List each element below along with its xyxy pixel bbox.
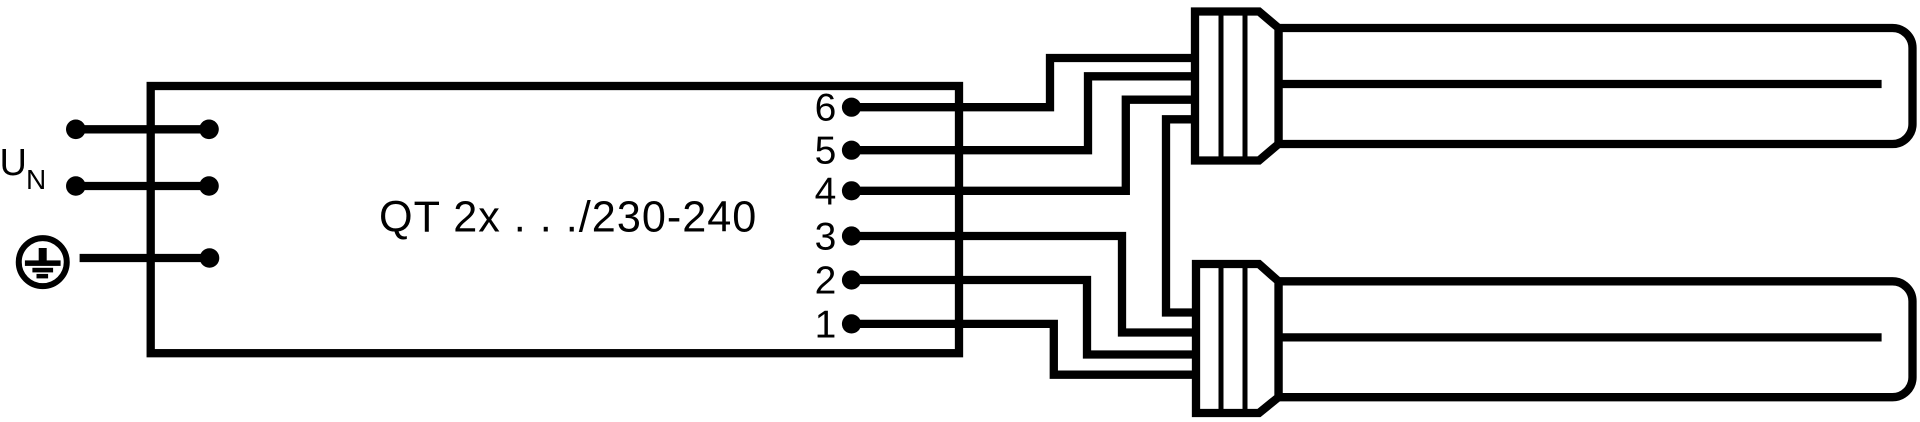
- lamp 2 tube middle line: [1279, 333, 1882, 341]
- node dot PE right: [200, 248, 220, 268]
- wire L2: [76, 182, 209, 190]
- ballast box QT 2x.../230-240: [151, 86, 959, 353]
- wire PE: [80, 254, 210, 262]
- node dot L1 right: [199, 120, 219, 140]
- svg-text:3: 3: [815, 216, 837, 259]
- lamp 1 tube: [1279, 28, 1913, 144]
- lamp 2 base: [1196, 264, 1279, 413]
- svg-text:4: 4: [815, 170, 837, 213]
- wire terminal 4 to lamp1 pin3: [852, 100, 1196, 191]
- wire terminal 2 to lamp2 pin3: [852, 280, 1197, 355]
- lamp 2 base divider 1: [1219, 264, 1224, 413]
- svg-text:5: 5: [815, 130, 837, 173]
- svg-text:QT 2x . . ./230-240: QT 2x . . ./230-240: [379, 194, 757, 242]
- lamp 1 base divider 1: [1219, 12, 1224, 161]
- node dot L2 right: [199, 176, 219, 196]
- lamp 2 base divider 2: [1243, 264, 1248, 413]
- lamp 2 tube: [1279, 281, 1913, 397]
- wire terminal 3 to lamp2 pin2: [852, 236, 1197, 333]
- wire series link lamp1 pin4 to lamp2 pin1: [1166, 119, 1196, 312]
- svg-text:U: U: [0, 142, 27, 184]
- wire terminal 1 to lamp2 pin4: [852, 324, 1197, 375]
- wire terminal 5 to lamp1 pin2: [852, 76, 1196, 150]
- svg-text:6: 6: [815, 87, 837, 130]
- ground symbol (protective earth): [19, 238, 67, 286]
- lamp 1 base divider 2: [1243, 12, 1248, 161]
- svg-text:N: N: [26, 164, 46, 195]
- node dot L1 left: [66, 120, 86, 140]
- node dot L2 left: [66, 176, 86, 196]
- lamp 1 tube middle line: [1279, 80, 1882, 88]
- wire terminal 6 to lamp1 pin1: [852, 58, 1196, 107]
- lamp 1 base: [1195, 12, 1279, 161]
- wire L1: [76, 125, 209, 133]
- svg-text:2: 2: [815, 260, 837, 303]
- svg-text:1: 1: [815, 303, 837, 346]
